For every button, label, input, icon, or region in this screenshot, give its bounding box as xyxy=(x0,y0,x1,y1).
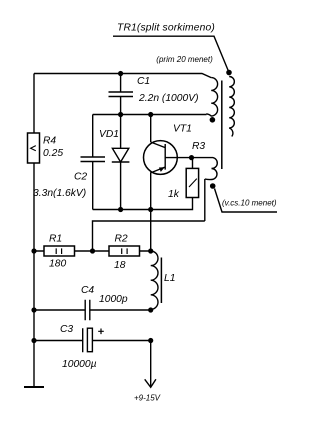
node junction C1 top xyxy=(118,71,123,76)
node junction collector xyxy=(148,112,153,117)
svg-text:L1: L1 xyxy=(164,273,175,284)
wire feedback winding to rail B xyxy=(204,179,206,221)
svg-text:1k: 1k xyxy=(168,189,180,200)
node junction VD1 bottom xyxy=(118,207,123,212)
wire rail B (base return) xyxy=(93,221,205,251)
svg-text:C3: C3 xyxy=(60,324,73,335)
svg-text:R1: R1 xyxy=(49,234,62,245)
wire TR1 leader underline xyxy=(113,36,229,72)
diode VD1 xyxy=(120,115,122,149)
svg-text:10000µ: 10000µ xyxy=(62,359,97,370)
resistor R1 xyxy=(34,250,93,252)
svg-text:18: 18 xyxy=(114,260,126,271)
node junction R2 right xyxy=(148,248,153,253)
svg-text:VD1: VD1 xyxy=(99,129,119,140)
transformer TR1 secondary winding xyxy=(229,77,234,137)
capacitor C2 xyxy=(81,115,106,210)
svg-text:C1: C1 xyxy=(137,76,150,87)
capacitor C1 xyxy=(109,74,134,115)
svg-text:(prim 20 menet): (prim 20 menet) xyxy=(156,55,213,64)
transformer TR1 primary winding xyxy=(206,78,217,116)
label v.cs.10 menet leader xyxy=(215,189,278,213)
wire node rail (collector node) xyxy=(93,114,207,116)
wire right rail to supply xyxy=(150,341,152,388)
label C3 plus xyxy=(98,329,104,335)
capacitor C4 xyxy=(34,300,151,321)
wire left rail upper (top rail to R4) xyxy=(33,74,35,134)
svg-text:VT1: VT1 xyxy=(173,124,192,135)
node phase dot primary xyxy=(210,117,216,123)
supply arrow xyxy=(145,379,156,387)
resistor R4 xyxy=(28,133,40,163)
node junction C3 right xyxy=(148,338,153,343)
transformer TR1 feedback winding xyxy=(192,158,218,180)
svg-text:C4: C4 xyxy=(81,285,94,296)
resistor R2 xyxy=(93,250,151,252)
node secondary-top dot xyxy=(226,70,232,76)
wire rail A (emitter rail) xyxy=(93,198,193,210)
svg-text:2.2n (1000V): 2.2n (1000V) xyxy=(138,93,199,104)
inductor L1 xyxy=(151,251,158,309)
label R4 mark xyxy=(31,146,36,151)
svg-text:180: 180 xyxy=(49,259,66,270)
node junction C4 left xyxy=(31,307,36,312)
node junction emitter rail A xyxy=(148,207,153,212)
resistor R3 xyxy=(192,158,194,169)
node junction L1 bottom xyxy=(148,307,153,312)
svg-text:1000p: 1000p xyxy=(99,294,128,305)
svg-text:R3: R3 xyxy=(192,141,205,152)
svg-text:TR1(split sorkimeno): TR1(split sorkimeno) xyxy=(117,22,215,33)
svg-text:+9-15V: +9-15V xyxy=(134,393,161,402)
node junction R1 left xyxy=(31,248,36,253)
svg-text:0.25: 0.25 xyxy=(43,148,63,159)
node junction R1-R2 xyxy=(90,248,95,253)
ground xyxy=(24,386,44,388)
svg-text:3.3n(1.6kV): 3.3n(1.6kV) xyxy=(33,188,86,199)
svg-text:C2: C2 xyxy=(74,172,87,183)
node junction C3 left xyxy=(31,338,36,343)
node junction base xyxy=(189,155,194,160)
svg-text:R2: R2 xyxy=(115,234,128,245)
wire left rail mid (R4 to ground) xyxy=(33,163,35,387)
svg-text:R4: R4 xyxy=(43,136,56,147)
transformer TR1 core xyxy=(221,81,223,170)
svg-text:(v.cs.10 menet): (v.cs.10 menet) xyxy=(222,199,277,208)
inductor L1 core bar xyxy=(160,258,162,304)
node phase dot feedback xyxy=(210,183,216,189)
transistor VT1 xyxy=(144,141,178,175)
node junction C1 bottom xyxy=(118,112,123,117)
capacitor C3 xyxy=(34,328,151,352)
wire top rail xyxy=(34,74,211,78)
